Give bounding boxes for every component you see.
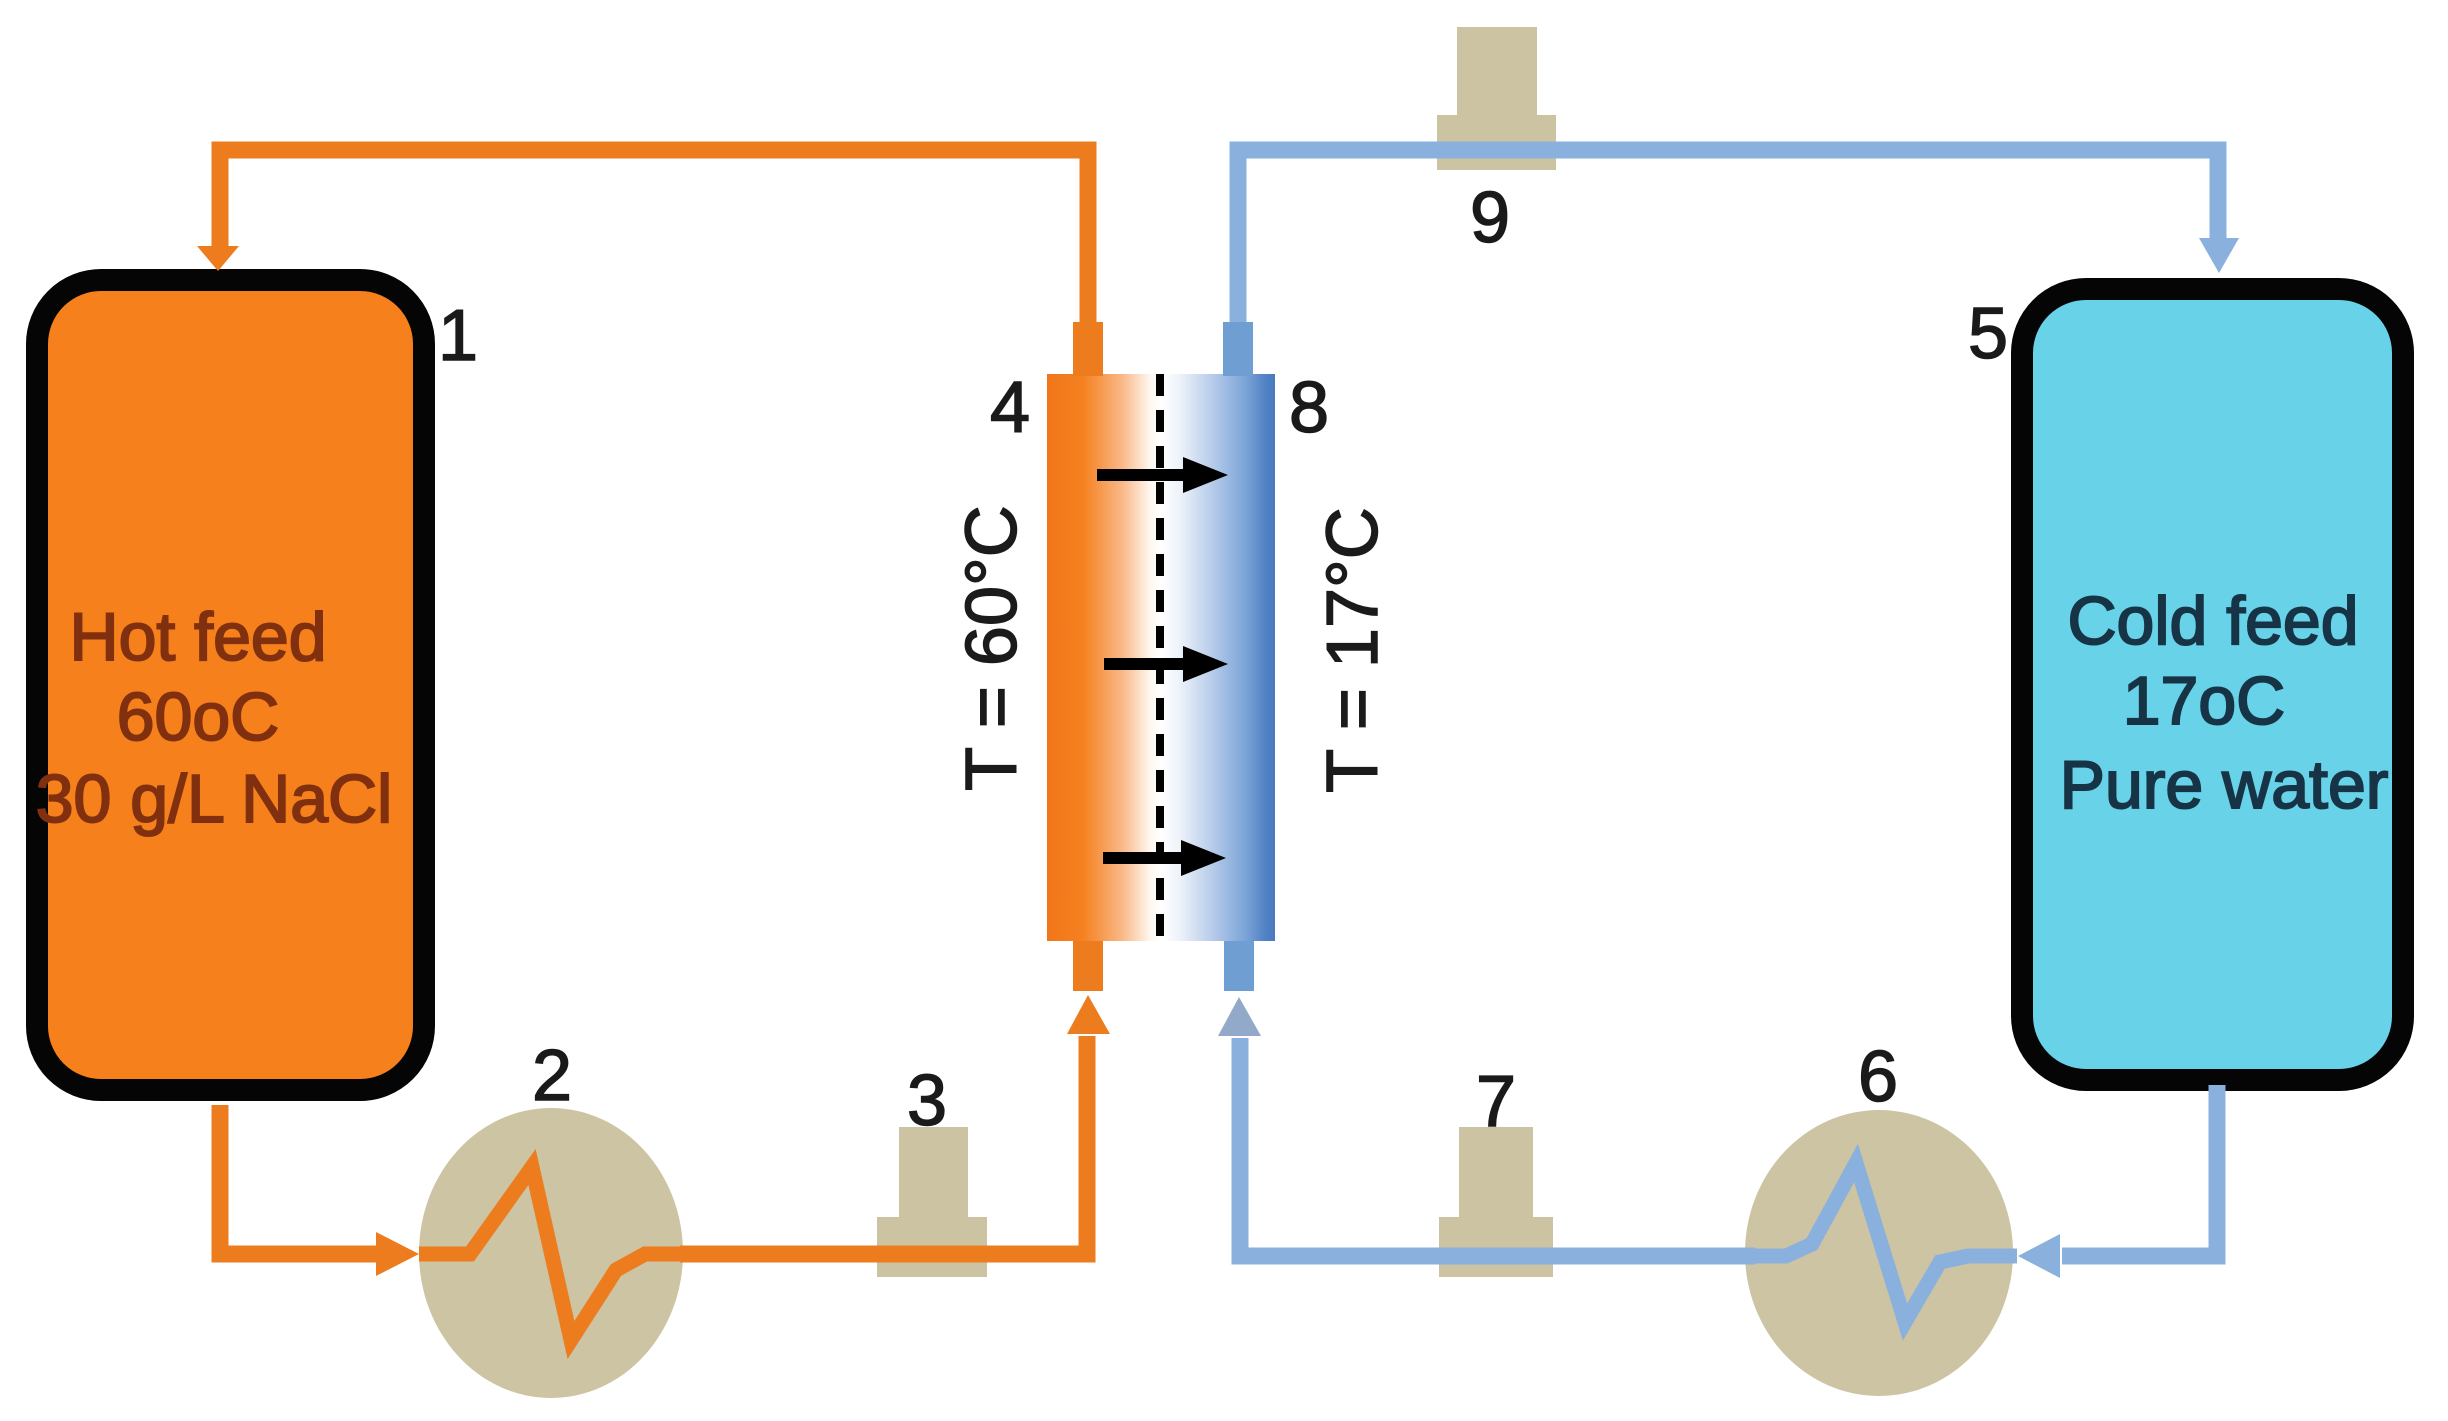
arrow into pump 6 (2018, 1234, 2060, 1278)
svg-text:6: 6 (1858, 1037, 1898, 1117)
flux arrow bottom (1103, 840, 1226, 876)
flux arrow top (1097, 457, 1228, 493)
pump 6 wave (1751, 1163, 2017, 1322)
hot feed tank 1 (37, 280, 424, 1090)
valve 9 (tan) (1437, 27, 1556, 170)
svg-text:5: 5 (1968, 294, 2008, 374)
svg-text:Pure water: Pure water (2060, 747, 2389, 823)
cold pipe stub into membrane top (1223, 322, 1253, 376)
hot tank label text (36, 599, 393, 837)
hot loop: tank bottom to pump 2 (220, 1105, 378, 1254)
hot loop: pipe membrane top to tank 1 (220, 150, 1088, 330)
arrow up into membrane cold port (1218, 997, 1261, 1036)
valve 7 (tan) (1439, 1127, 1553, 1277)
svg-text:7: 7 (1476, 1062, 1516, 1142)
pump 2 (tan circle) (419, 1108, 683, 1398)
svg-text:8: 8 (1289, 368, 1329, 448)
hot pipe stub into membrane top (1073, 322, 1103, 376)
cold pipe stub below membrane (1224, 941, 1254, 991)
valve 3 (tan) (877, 1127, 987, 1277)
svg-text:T = 60°C: T = 60°C (952, 505, 1032, 791)
hot loop: pump 2 to membrane bottom (680, 1036, 1087, 1254)
arrow into hot tank (197, 246, 239, 271)
arrow up into membrane hot port (1067, 995, 1110, 1034)
hot pipe stub below membrane (1073, 941, 1103, 991)
svg-text:60oC: 60oC (117, 679, 280, 755)
membrane dashed line (1156, 374, 1164, 941)
svg-text:T = 17°C: T = 17°C (1313, 507, 1393, 793)
cold loop: tank bottom to pump 6 (2062, 1085, 2217, 1256)
cold loop: membrane top to tank 5 (1238, 150, 2218, 330)
flux arrow middle (1104, 646, 1228, 682)
cold feed tank 5 (2022, 289, 2403, 1080)
numeric labels (438, 178, 2008, 1142)
cold tank label text (2060, 583, 2389, 823)
svg-text:Hot feed: Hot feed (69, 599, 326, 675)
svg-text:2: 2 (532, 1036, 572, 1116)
svg-text:4: 4 (990, 368, 1030, 448)
arrow into pump 2 (376, 1232, 419, 1276)
svg-text:Cold feed: Cold feed (2067, 583, 2358, 659)
svg-text:3: 3 (907, 1061, 947, 1141)
pump 2 wave (419, 1167, 684, 1340)
arrow into cold tank (2199, 238, 2239, 273)
svg-text:1: 1 (438, 296, 478, 376)
svg-text:17oC: 17oC (2123, 663, 2286, 739)
membrane module 4/8 (1047, 374, 1275, 941)
pump 6 (tan circle) (1745, 1110, 2013, 1396)
svg-text:9: 9 (1470, 178, 1510, 258)
svg-text:30 g/L NaCl: 30 g/L NaCl (36, 761, 393, 837)
cold loop: pump 6 to membrane bottom (1240, 1038, 1755, 1256)
